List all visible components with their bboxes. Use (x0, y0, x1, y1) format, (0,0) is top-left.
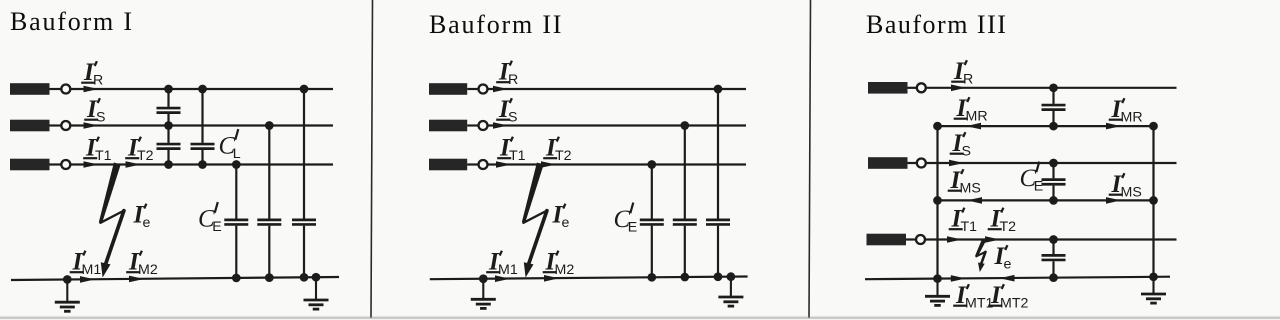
label I'T2 (Bauform III) (988, 206, 1016, 236)
terminal T (Bauform III) (867, 234, 926, 246)
label I'e (Bauform II) (552, 202, 570, 232)
capacitor C'E II phase T plates (640, 220, 664, 225)
fault bolt I'e (Bauform II) (522, 163, 547, 278)
current arrow I'MR left (Bauform III) (966, 123, 981, 130)
current arrow I'R (Bauform I) (84, 86, 99, 93)
svg-text:R: R (93, 73, 103, 89)
current arrow I'MT2 (Bauform III) (1000, 275, 1015, 282)
capacitor C'L R-S stem lower (167, 114, 169, 126)
wire phase S (Bauform III) (926, 162, 1177, 164)
terminal R (Bauform I) (10, 83, 70, 95)
capacitor C'E II phase S stem upper (684, 126, 686, 219)
current arrow I'T1 (Bauform II) (496, 161, 511, 168)
svg-text:M2: M2 (555, 262, 575, 278)
capacitor C'E R-MR plates (1042, 105, 1066, 110)
junction dot T cap bottom (232, 274, 241, 283)
current arrow I'MT1 (Bauform III) (951, 275, 966, 282)
junction dot earth tap right (Bauform II) (727, 272, 736, 281)
label I'MS right (Bauform III) (1109, 171, 1142, 201)
current arrow I'T2 (Bauform II) (541, 161, 556, 168)
label I'T2 (Bauform I) (125, 135, 153, 165)
svg-text:T2: T2 (1000, 219, 1017, 235)
current arrow I'MS left (Bauform III) (967, 197, 982, 204)
wire phase T (Bauform II) (487, 163, 746, 165)
current arrow I'R (Bauform III) (951, 85, 966, 92)
label I'T2 (Bauform II) (543, 135, 571, 165)
svg-text:e: e (1004, 257, 1012, 273)
capacitor C'E T-MT stem upper (1052, 240, 1054, 255)
current arrow I'MS right (Bauform III) (1106, 197, 1121, 204)
svg-text:E: E (1034, 179, 1043, 195)
wire sheath MR (Bauform III) (938, 125, 1154, 127)
svg-text:T1: T1 (509, 148, 526, 164)
label I'e (Bauform III) (994, 243, 1012, 273)
capacitor C'L R-T stem upper (crosses S) (201, 89, 203, 143)
current arrow I'T2 (Bauform I) (126, 161, 141, 168)
label I'R (Bauform I) (81, 59, 103, 89)
current arrow I'T2 (Bauform III) (985, 236, 1000, 243)
panel divider 1 (371, 0, 373, 318)
capacitor C'E phase S stem upper (268, 126, 270, 219)
junction dot left bus/MR (933, 122, 942, 131)
terminal S (Bauform III) (868, 157, 926, 169)
capacitor C'E II phase S plates (673, 220, 697, 225)
svg-text:e: e (143, 215, 151, 231)
wire phase T (Bauform III) (925, 238, 1177, 240)
panel divider 2 (809, 0, 811, 318)
label I'MR right (Bauform III) (1109, 96, 1143, 126)
fault bolt I'e (Bauform III) (975, 239, 986, 272)
label I'MS left (Bauform III) (948, 167, 981, 197)
svg-text:S: S (508, 110, 517, 126)
terminal T (Bauform I) (10, 159, 70, 171)
capacitor C'L R-S plates (157, 108, 181, 113)
earth symbol left (Bauform II) (471, 279, 496, 309)
junction dot right bus/MS (1149, 196, 1158, 205)
svg-text:MR: MR (1121, 110, 1143, 126)
label I'MT1 (Bauform III) (953, 282, 993, 312)
current arrow I'M2 (Bauform II) (544, 275, 559, 282)
label I'M2 (Bauform I) (126, 249, 158, 279)
label I'S (Bauform II) (496, 96, 517, 126)
label I'MT2 (Bauform III) (988, 282, 1028, 312)
capacitor C'E phase R stem lower (303, 226, 305, 278)
terminal T (Bauform II) (429, 159, 488, 171)
label C'E (Bauform III) (1020, 162, 1044, 195)
label I'e (Bauform I) (133, 202, 151, 232)
current arrow I'S (Bauform I) (84, 122, 99, 129)
junction dot S-MS bottom (1049, 196, 1058, 205)
wire phase S (Bauform I) (70, 124, 333, 126)
svg-text:L: L (233, 146, 241, 162)
capacitor C'L R-T plates (191, 144, 215, 149)
current arrow I'S (Bauform II) (493, 122, 508, 129)
svg-text:MR: MR (966, 109, 988, 125)
capacitor C'E phase S plates (257, 220, 281, 225)
earth symbol right (Bauform I) (304, 277, 329, 309)
wire earthing bus left (Bauform III) (936, 126, 938, 279)
capacitor C'L R-S stem upper (167, 89, 169, 107)
capacitor C'E phase T stem upper (235, 165, 237, 219)
label I'T1 (Bauform III) (949, 206, 977, 236)
capacitor C'E S-MS plates (1042, 180, 1066, 185)
terminal S (Bauform II) (429, 120, 488, 132)
label C'E (Bauform I) (198, 202, 222, 235)
svg-text:M2: M2 (138, 262, 158, 278)
svg-text:Bauform I: Bauform I (10, 7, 134, 36)
junction dot S cap top (265, 121, 274, 130)
svg-text:M1: M1 (498, 262, 518, 278)
svg-text:T1: T1 (961, 219, 978, 235)
junction dot R/capB (198, 85, 207, 94)
terminal R (Bauform II) (429, 83, 488, 95)
terminal S (Bauform I) (10, 120, 70, 132)
junction dot S/capA (164, 121, 173, 130)
junction dot II R cap bottom (714, 272, 723, 281)
label I'T1 (Bauform II) (497, 135, 525, 165)
wire earthing bus right (Bauform III) (1152, 126, 1154, 277)
bottom scan edge (0, 317, 1280, 320)
earth symbol left (Bauform I) (55, 279, 80, 311)
current arrow I'T1 (Bauform III) (947, 236, 962, 243)
current arrow I'T1 (Bauform I) (84, 161, 99, 168)
svg-text:E: E (212, 219, 221, 235)
svg-text:MS: MS (1121, 185, 1142, 201)
wire phase R (Bauform I) (70, 88, 333, 90)
junction dot T/capB (198, 160, 207, 169)
junction dot right bus/MR (1149, 122, 1158, 131)
capacitor C'E II phase S stem lower (684, 226, 686, 277)
junction dot II S cap bottom (680, 273, 689, 282)
capacitor C'E II phase T stem lower (651, 226, 653, 278)
junction dot II T cap bottom (647, 273, 656, 282)
junction dot T/capA (164, 160, 173, 169)
earth symbol right (Bauform III) (1141, 277, 1166, 303)
junction dot II T cap top (647, 160, 656, 169)
capacitor C'E phase R plates (292, 220, 316, 225)
junction dot S-MS top (1049, 159, 1058, 168)
capacitor C'E II phase R plates (706, 220, 730, 225)
label I'M2 (Bauform II) (543, 249, 575, 279)
current arrow I'M2 (Bauform I) (129, 276, 144, 283)
capacitor C'E phase R stem upper (303, 89, 305, 219)
wire phase R (Bauform III) (926, 87, 1177, 89)
svg-text:Bauform III: Bauform III (866, 10, 1007, 39)
label I'R (Bauform III) (951, 58, 973, 88)
wire sheath MT (Bauform III bottom) (865, 277, 1170, 280)
label I'S (Bauform I) (84, 96, 105, 126)
label I'S (Bauform III) (950, 130, 971, 160)
junction dot II R cap top (714, 85, 723, 94)
svg-text:MT2: MT2 (1000, 296, 1028, 312)
earth symbol left (Bauform III) (925, 279, 950, 306)
wire phase R (Bauform II) (487, 88, 746, 90)
junction dot R cap bottom (300, 273, 309, 282)
capacitor C'E phase T plates (224, 220, 248, 225)
capacitor C'E S-MS stem upper (1052, 163, 1054, 178)
capacitor C'E R-MR stem lower (1052, 111, 1054, 126)
current arrow I'M1 (Bauform I) (80, 276, 95, 283)
current arrow I'R (Bauform II) (493, 86, 508, 93)
junction dot T-MT bottom (1049, 273, 1058, 282)
svg-text:E: E (628, 220, 637, 236)
capacitor C'E R-MR stem upper (1052, 88, 1054, 104)
earth symbol right (Bauform II) (718, 277, 743, 306)
capacitor C'E T-MT plates (1042, 255, 1066, 260)
svg-text:T2: T2 (555, 148, 572, 164)
fault bolt I'e (Bauform I) (99, 163, 124, 278)
junction dot R-MR top (1049, 83, 1058, 92)
label C'L (219, 129, 241, 162)
terminal R (Bauform III) (868, 82, 926, 94)
wire phase T (Bauform I) (70, 163, 333, 165)
junction dot T-MT top (1049, 235, 1058, 244)
wire earthed sheath (Bauform II bottom) (430, 277, 748, 280)
capacitor C'E II phase T stem upper (651, 165, 653, 219)
capacitor C'E S-MS stem lower (1052, 186, 1054, 201)
wire phase S (Bauform II) (487, 124, 746, 126)
wire sheath MS (Bauform III) (938, 199, 1154, 201)
current arrow I'MR right (Bauform III) (1106, 123, 1121, 130)
capacitor C'E II phase R stem upper (717, 89, 719, 219)
junction dot R/capA (164, 85, 173, 94)
label C'E (Bauform II) (614, 203, 638, 236)
svg-text:Bauform II: Bauform II (429, 10, 563, 39)
current arrow I'M1 (Bauform II) (495, 275, 510, 282)
label I'MR left (Bauform III) (954, 95, 988, 125)
svg-text:MS: MS (960, 181, 981, 197)
svg-text:S: S (962, 144, 971, 160)
capacitor C'E II phase R stem lower (717, 226, 719, 277)
svg-text:R: R (963, 72, 973, 88)
junction dot earth tap right (Bauform I) (312, 273, 321, 282)
capacitor C'E phase S stem lower (268, 226, 270, 278)
junction dot S cap bottom (265, 273, 274, 282)
svg-text:M1: M1 (82, 262, 102, 278)
svg-text:MT1: MT1 (965, 296, 993, 312)
label I'R (Bauform II) (496, 59, 518, 89)
junction dot R-MR bottom (1049, 122, 1058, 131)
junction dot earth tap left (Bauform I) (63, 275, 72, 284)
junction dot R cap top (300, 85, 309, 94)
wire earthed sheath (Bauform I bottom) (11, 277, 339, 280)
capacitor C'L S-T stem lower (167, 150, 169, 165)
svg-text:R: R (508, 72, 518, 88)
svg-text:e: e (562, 215, 570, 231)
junction dot left bus/MT (933, 274, 942, 283)
capacitor C'L S-T plates (157, 144, 181, 149)
label I'T1 (Bauform I) (83, 135, 111, 165)
label I'M1 (Bauform II) (486, 249, 518, 279)
junction dot T cap top (232, 160, 241, 169)
current arrow I'S (Bauform III) (949, 160, 964, 167)
label I'M1 (Bauform I) (70, 249, 102, 279)
capacitor C'L R-T stem lower (201, 150, 203, 165)
svg-text:T2: T2 (137, 148, 154, 164)
junction dot left bus/MS (933, 196, 942, 205)
capacitor C'E T-MT stem lower (1052, 261, 1054, 277)
capacitor C'L S-T stem upper (167, 126, 169, 143)
junction dot earth tap left (Bauform II) (479, 274, 488, 283)
svg-text:S: S (96, 110, 105, 126)
capacitor C'E phase T stem lower (235, 226, 237, 278)
junction dot II S cap top (680, 121, 689, 130)
junction dot right bus/MT (1149, 272, 1158, 281)
svg-text:T1: T1 (95, 148, 112, 164)
